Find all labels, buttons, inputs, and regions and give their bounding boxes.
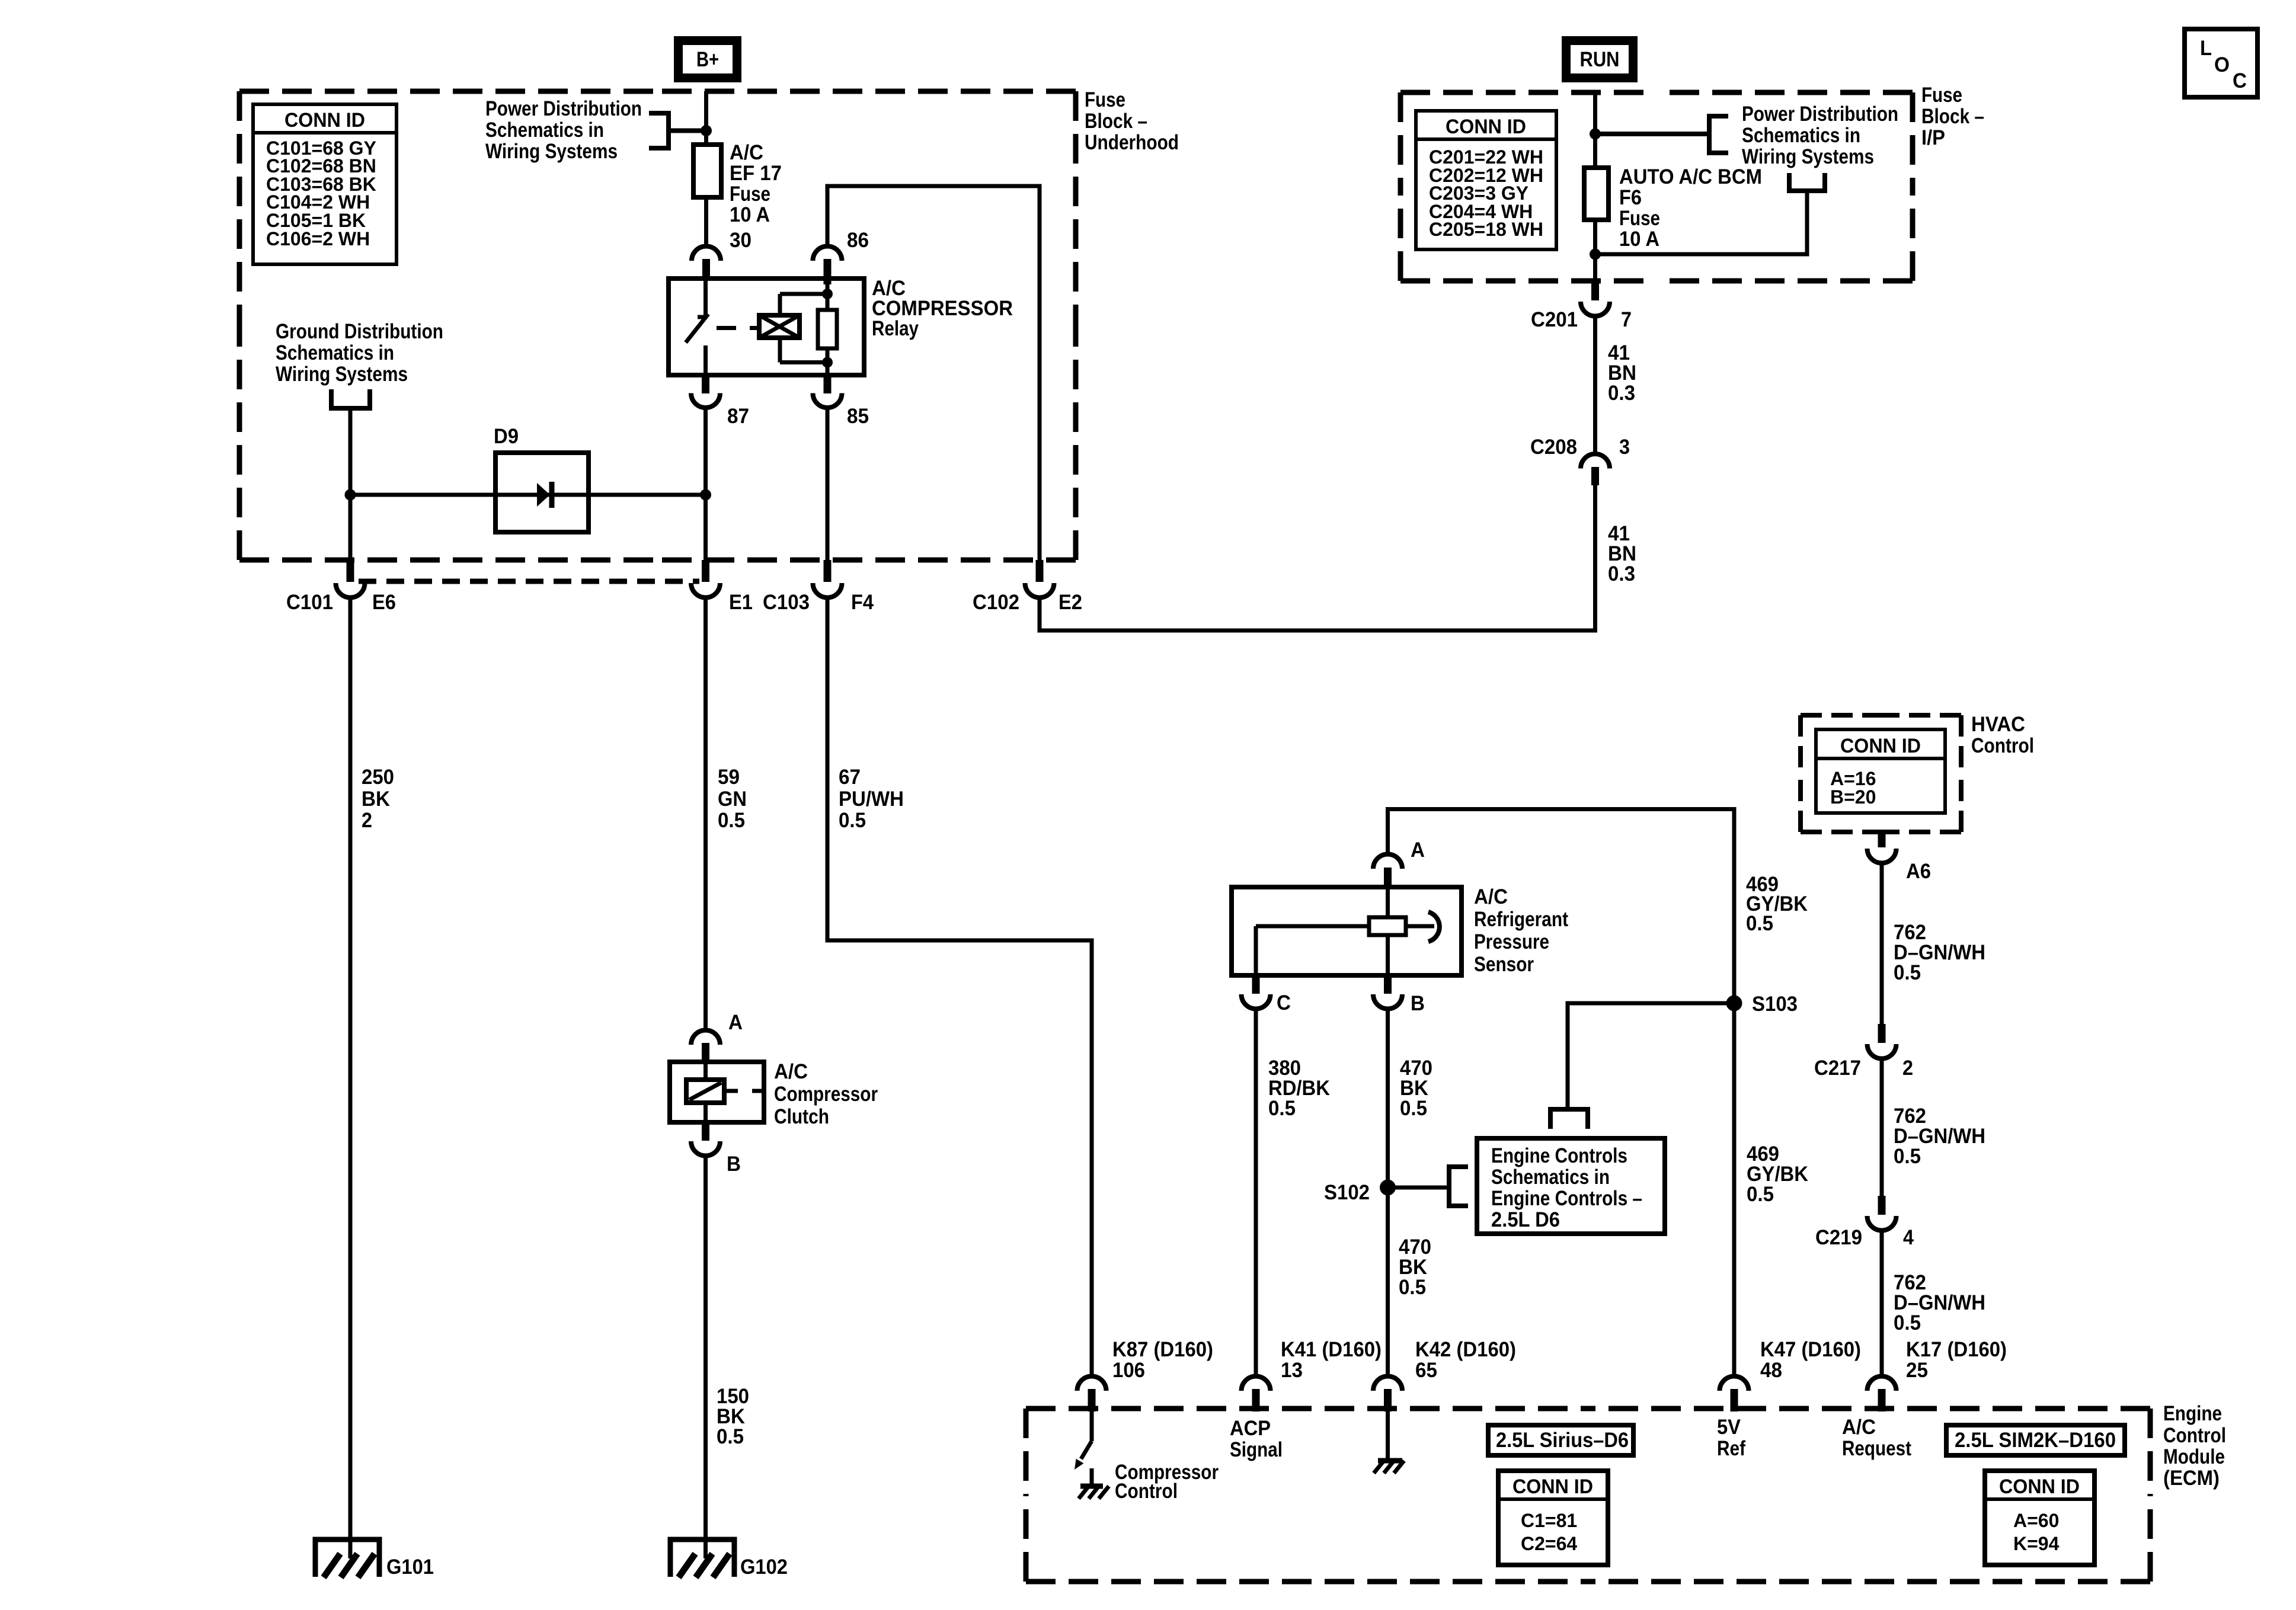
svg-text:Module: Module [2163, 1445, 2225, 1468]
sensor internal wires [1256, 887, 1434, 975]
svg-text:S102: S102 [1324, 1181, 1370, 1204]
wire C201 to C208 [1593, 316, 1597, 454]
label A/C EF 17 Fuse 10 A [730, 141, 782, 226]
svg-text:2.5L SIM2K–D160: 2.5L SIM2K–D160 [1955, 1429, 2116, 1452]
svg-text:Power Distribution: Power Distribution [1742, 103, 1898, 126]
node junction RUN feed upper [1590, 129, 1601, 140]
connector clutch A (dome + stub) [691, 1030, 720, 1045]
label 469 GY/BK 0.5 (lower) [1747, 1142, 1808, 1206]
connector E1 (stub + cup) [702, 560, 709, 582]
node coil bottom junction [822, 357, 833, 368]
connector K17 (dome + stub) [1868, 1377, 1897, 1391]
label 67 PU/WH 0.5 [839, 766, 904, 832]
label 762 D-GN/WH 0.5 (second) [1894, 1105, 1985, 1168]
svg-text:C208: C208 [1530, 436, 1577, 459]
svg-text:AUTO A/C BCM: AUTO A/C BCM [1619, 165, 1762, 188]
node diode right junction [700, 489, 711, 501]
svg-text:A6: A6 [1906, 860, 1931, 883]
connector sensor A (dome + stub) [1373, 854, 1402, 869]
svg-text:CONN ID: CONN ID [1840, 735, 1921, 757]
svg-text:HVAC: HVAC [1971, 713, 2025, 736]
off-page U symbol (I/P block) [1789, 173, 1825, 191]
svg-text:F4: F4 [851, 591, 874, 614]
svg-text:0.5: 0.5 [1399, 1276, 1426, 1299]
label 469 GY/BK 0.5 (upper) [1746, 873, 1808, 935]
svg-text:Fuse: Fuse [730, 183, 770, 206]
connector K87 (dome + stub) [1077, 1377, 1107, 1391]
svg-text:87: 87 [727, 405, 749, 428]
svg-text:RUN: RUN [1580, 48, 1620, 71]
svg-text:10 A: 10 A [730, 203, 770, 226]
svg-text:Engine: Engine [2163, 1402, 2222, 1425]
label Power Distribution Schematics in Wiring Systems (right) [1742, 103, 1898, 168]
svg-text:Pressure: Pressure [1474, 930, 1549, 953]
wire sensor B down to K42 [1386, 1009, 1390, 1377]
CONN ID table (HVAC) [1816, 729, 1945, 813]
clutch inner wire [703, 1062, 708, 1122]
2.5L SIM2K-D160 box [1946, 1425, 2125, 1455]
svg-text:L: L [2200, 37, 2212, 60]
svg-text:5V: 5V [1717, 1416, 1741, 1439]
svg-text:C106=2 WH: C106=2 WH [266, 228, 370, 249]
svg-text:0.5: 0.5 [1894, 1145, 1921, 1168]
svg-text:0.5: 0.5 [1894, 961, 1921, 984]
connector C217 (stub + cup) [1878, 1024, 1886, 1043]
svg-text:Schematics in: Schematics in [276, 341, 394, 364]
label 470 BK 0.5 (upper) [1400, 1057, 1432, 1120]
wire B+ feed down [704, 91, 708, 247]
connector F4 (stub + cup) [824, 560, 832, 582]
svg-text:Control: Control [2163, 1424, 2226, 1447]
node S103 junction [1726, 996, 1742, 1012]
connector K47 (dome + stub) [1720, 1377, 1749, 1391]
label 41 BN 0.3 (lower) [1608, 522, 1636, 585]
svg-text:Engine Controls: Engine Controls [1491, 1144, 1627, 1167]
wire clutch B to G102 [703, 1156, 708, 1540]
wire E1 down to clutch A [703, 598, 708, 1032]
svg-text:G101: G101 [386, 1555, 434, 1579]
svg-text:B=20: B=20 [1830, 786, 1876, 808]
svg-text:BK: BK [362, 788, 390, 811]
svg-text:Refrigerant: Refrigerant [1474, 908, 1568, 931]
fuse block I/P dashed border [1400, 92, 1913, 281]
wire RUN feed down [1593, 92, 1597, 281]
svg-text:K17 (D160): K17 (D160) [1906, 1338, 2007, 1361]
svg-text:13: 13 [1281, 1359, 1303, 1382]
label Compressor Control [1115, 1461, 1219, 1503]
node RUN (ignition feed box) [1562, 36, 1638, 82]
svg-text:C: C [2233, 69, 2247, 92]
svg-text:0.5: 0.5 [1746, 912, 1773, 935]
connector clutch B (stub + cup) [702, 1122, 709, 1141]
connector E6 (stub + cup) [347, 560, 354, 582]
label K47 (D160) 48 [1760, 1338, 1861, 1382]
ground distribution off-page U symbol [331, 389, 370, 408]
label HVAC Control [1971, 713, 2034, 757]
svg-text:A=60: A=60 [2013, 1510, 2059, 1531]
svg-text:10 A: 10 A [1619, 228, 1659, 251]
svg-text:Fuse: Fuse [1085, 88, 1125, 111]
wire relay 87 down to E1 [703, 408, 708, 560]
wire S102 branch to bracket [1388, 1186, 1450, 1190]
clutch dashed link [727, 1089, 762, 1093]
svg-text:E1: E1 [729, 591, 753, 614]
svg-text:CONN ID: CONN ID [284, 109, 365, 132]
svg-text:PU/WH: PU/WH [839, 788, 904, 811]
CONN ID table (SIM2K) [1985, 1471, 2094, 1565]
node S102 junction [1380, 1180, 1396, 1196]
diode D9 symbol [537, 482, 552, 508]
label A/C COMPRESSOR Relay [872, 277, 1013, 340]
svg-text:I/P: I/P [1921, 126, 1945, 149]
svg-text:3: 3 [1619, 436, 1630, 459]
label 41 BN 0.3 (upper) [1608, 341, 1636, 405]
svg-text:EF 17: EF 17 [730, 162, 782, 185]
svg-text:C102: C102 [973, 591, 1019, 614]
connector C201 (stub + cup) [1591, 281, 1599, 300]
fuse A/C EF 17 10 A [693, 145, 721, 197]
svg-text:25: 25 [1906, 1359, 1928, 1382]
svg-text:Compressor: Compressor [774, 1083, 878, 1106]
svg-text:F6: F6 [1619, 186, 1642, 209]
K42 internal ground wire [1386, 1411, 1390, 1459]
connector K42 (dome + stub) [1373, 1377, 1402, 1391]
A/C refrigerant pressure sensor box [1232, 887, 1462, 975]
svg-text:Fuse: Fuse [1921, 84, 1962, 107]
label 380 RD/BK 0.5 [1268, 1057, 1330, 1120]
label A/C Refrigerant Pressure Sensor [1474, 885, 1568, 976]
node diode left junction [345, 489, 356, 501]
label Engine Controls Schematics in Engine Controls - 2.5L D6 [1491, 1144, 1642, 1231]
svg-text:2: 2 [362, 809, 372, 832]
svg-text:0.5: 0.5 [1894, 1311, 1921, 1334]
svg-text:O: O [2214, 53, 2230, 76]
wire C208 down and left to E2 riser [1040, 485, 1595, 630]
label K41 (D160) 13 [1281, 1338, 1382, 1382]
connector sensor C (stub + cup) [1252, 975, 1260, 994]
svg-text:C: C [1277, 991, 1291, 1014]
clutch coil symbol with slash [686, 1080, 724, 1103]
bracket engine controls reference [1449, 1167, 1468, 1206]
relay coil loop wires [780, 284, 827, 375]
relay A/C COMPRESSOR box [669, 279, 864, 375]
fuse F6 [1584, 168, 1609, 220]
wire diode horizontal [350, 493, 706, 497]
svg-text:(ECM): (ECM) [2163, 1467, 2220, 1490]
CONN ID table (I/P) [1416, 111, 1556, 249]
wire ground distribution to E6 [348, 408, 353, 560]
connector sensor B (stub + cup) [1384, 975, 1392, 994]
connector K41 (dome + stub) [1242, 1377, 1271, 1391]
connector pin 30 (dome + stub) [692, 247, 721, 261]
svg-text:Block –: Block – [1085, 110, 1147, 133]
svg-text:4: 4 [1903, 1226, 1914, 1249]
svg-text:Block –: Block – [1921, 105, 1984, 128]
svg-text:CONN ID: CONN ID [1512, 1475, 1593, 1498]
svg-text:Engine Controls –: Engine Controls – [1491, 1187, 1642, 1210]
relay switch contact [686, 281, 708, 375]
svg-text:E6: E6 [372, 591, 396, 614]
svg-text:K47 (D160): K47 (D160) [1760, 1338, 1861, 1361]
relay resistor [818, 310, 837, 348]
bracket for power distribution reference (left) [649, 113, 706, 148]
2.5L Sirius-D6 box [1488, 1425, 1633, 1455]
label 250 BK 2 [362, 766, 394, 832]
label A/C Compressor Clutch [774, 1060, 878, 1128]
svg-text:C205=18 WH: C205=18 WH [1429, 219, 1543, 240]
svg-text:C101: C101 [286, 591, 333, 614]
label ACP Signal [1230, 1417, 1283, 1461]
connector A6 (stub + cup) [1878, 832, 1886, 847]
label Engine Control Module (ECM) [2163, 1402, 2226, 1490]
svg-text:48: 48 [1760, 1359, 1782, 1382]
connector pin 86 (dome + stub) [813, 247, 842, 261]
connector pin 87 (stub + cup) [702, 375, 709, 393]
svg-text:67: 67 [839, 766, 861, 789]
relay dashed actuator link [717, 326, 759, 330]
svg-text:G102: G102 [740, 1555, 788, 1579]
label Fuse Block - I/P [1921, 84, 1984, 149]
svg-text:E2: E2 [1059, 591, 1082, 614]
svg-text:Control: Control [1115, 1480, 1178, 1503]
svg-text:2.5L Sirius–D6: 2.5L Sirius–D6 [1496, 1429, 1629, 1452]
compressor control switch [1075, 1411, 1092, 1470]
svg-text:A/C: A/C [1842, 1416, 1876, 1439]
svg-text:C1=81: C1=81 [1521, 1510, 1577, 1531]
label Power Distribution Schematics in Wiring Systems (left) [485, 97, 642, 163]
label Ground Distribution Schematics in Wiring Systems [276, 320, 443, 386]
label K17 (D160) 25 [1906, 1338, 2007, 1382]
svg-text:Sensor: Sensor [1474, 953, 1534, 976]
svg-text:D9: D9 [494, 425, 519, 448]
svg-text:Wiring Systems: Wiring Systems [276, 363, 408, 386]
svg-text:CONN ID: CONN ID [1999, 1475, 2080, 1498]
connector E2 (stub + cup) [1036, 560, 1044, 582]
svg-text:Ground Distribution: Ground Distribution [276, 320, 443, 343]
connector pin 85 (stub + cup) [824, 375, 832, 393]
wire junction to off-page U symbol [1595, 193, 1808, 254]
label A/C Request [1842, 1416, 1911, 1460]
svg-text:0.5: 0.5 [1747, 1183, 1774, 1206]
LOC reference box [2185, 29, 2257, 97]
svg-text:250: 250 [362, 766, 394, 789]
diode D9 box [495, 453, 589, 532]
svg-text:Schematics in: Schematics in [1742, 124, 1860, 147]
engine controls reference box [1477, 1138, 1665, 1234]
ECM dashed box [1026, 1409, 2150, 1582]
label 59 GN 0.5 [718, 766, 747, 832]
svg-text:0.5: 0.5 [839, 809, 866, 832]
svg-text:Underhood: Underhood [1085, 131, 1179, 154]
label 150 BK 0.5 [717, 1385, 749, 1448]
label AUTO A/C BCM F6 Fuse 10 A [1619, 165, 1762, 251]
wire relay 85 down to F4 [826, 408, 830, 560]
svg-text:Power Distribution: Power Distribution [485, 97, 642, 120]
svg-text:85: 85 [847, 405, 869, 428]
off-page n symbol (engine controls) [1550, 1109, 1588, 1129]
svg-text:A/C: A/C [774, 1060, 808, 1083]
svg-text:59: 59 [718, 766, 740, 789]
svg-text:K87 (D160): K87 (D160) [1112, 1338, 1213, 1361]
svg-text:0.3: 0.3 [1608, 382, 1635, 405]
svg-text:0.5: 0.5 [717, 1425, 744, 1448]
svg-text:Fuse: Fuse [1619, 207, 1660, 230]
CONN ID table (underhood) [253, 104, 396, 264]
wire 5V ref net: sensor A up, across, down to S103 and K47 [1388, 809, 1735, 1377]
ground G102 [670, 1539, 734, 1577]
compressor control ground [1079, 1468, 1109, 1499]
sensor transducer rect [1369, 917, 1406, 935]
wire 86 up and over to E2 [827, 186, 1040, 560]
svg-text:K42 (D160): K42 (D160) [1415, 1338, 1516, 1361]
svg-text:Wiring Systems: Wiring Systems [485, 140, 618, 163]
svg-text:0.5: 0.5 [1400, 1097, 1427, 1120]
K42 ground symbol [1374, 1461, 1404, 1473]
wire C217 to C219 [1880, 1059, 1884, 1196]
svg-text:C219: C219 [1815, 1226, 1862, 1249]
node coil top junction [822, 289, 833, 299]
svg-text:2: 2 [1902, 1057, 1913, 1080]
svg-text:B: B [727, 1153, 741, 1176]
label K87 (D160) 106 [1112, 1338, 1213, 1382]
label K42 (D160) 65 [1415, 1338, 1516, 1382]
svg-text:Schematics in: Schematics in [1491, 1166, 1610, 1189]
label 762 D-GN/WH 0.5 (third) [1894, 1271, 1985, 1334]
wire C219 down to K17 [1880, 1231, 1884, 1377]
node junction RUN feed lower [1590, 249, 1601, 260]
bracket for power distribution reference (right) [1595, 116, 1729, 153]
svg-text:C201: C201 [1531, 308, 1578, 331]
ground G101 [315, 1539, 379, 1577]
svg-text:C103: C103 [763, 591, 810, 614]
svg-text:65: 65 [1415, 1359, 1437, 1382]
svg-text:GN: GN [718, 788, 747, 811]
A/C compressor clutch box [670, 1062, 764, 1122]
CONN ID table (Sirius) [1498, 1471, 1608, 1565]
connector C219 (stub + cup) [1878, 1196, 1886, 1215]
svg-text:2.5L D6: 2.5L D6 [1491, 1208, 1560, 1231]
wire S103 branch to engine controls reference [1568, 1003, 1734, 1109]
svg-text:B+: B+ [696, 48, 719, 71]
svg-text:A: A [728, 1011, 743, 1034]
sensor diaphragm arc [1428, 912, 1440, 942]
node B+ (battery feed box) [674, 36, 741, 82]
wire E6 ground run to G101 [348, 598, 353, 1540]
svg-text:A/C: A/C [1474, 885, 1508, 908]
svg-text:0.3: 0.3 [1608, 562, 1635, 585]
HVAC control dashed box [1801, 715, 1961, 832]
svg-text:ACP: ACP [1230, 1417, 1271, 1440]
svg-text:C2=64: C2=64 [1521, 1533, 1577, 1554]
wire sensor C down to K41 [1254, 1009, 1258, 1377]
wire A6 down to C217 [1880, 863, 1884, 1025]
relay coil box with X [759, 315, 800, 338]
svg-text:Signal: Signal [1230, 1438, 1283, 1461]
svg-text:Relay: Relay [872, 317, 919, 340]
svg-text:C217: C217 [1814, 1057, 1861, 1080]
label 470 BK 0.5 (lower) [1399, 1235, 1431, 1299]
svg-text:Request: Request [1842, 1437, 1911, 1460]
svg-text:A/C: A/C [730, 141, 763, 164]
svg-text:Ref: Ref [1717, 1437, 1745, 1460]
label 5V Ref [1717, 1416, 1745, 1460]
svg-text:Schematics in: Schematics in [485, 119, 604, 142]
dotted connector row line C101-C103 [359, 579, 699, 584]
label Fuse Block - Underhood [1085, 88, 1179, 154]
svg-text:K=94: K=94 [2013, 1533, 2060, 1554]
svg-text:CONN ID: CONN ID [1446, 116, 1526, 138]
node junction on B+ feed [701, 125, 712, 136]
wire F4 down then over then down to K87 [827, 598, 1092, 1377]
svg-text:86: 86 [847, 229, 869, 252]
svg-text:0.5: 0.5 [1268, 1097, 1296, 1120]
svg-text:0.5: 0.5 [718, 809, 745, 832]
svg-text:106: 106 [1112, 1359, 1145, 1382]
svg-text:Control: Control [1971, 734, 2034, 757]
label 762 D-GN/WH 0.5 (first) [1894, 921, 1985, 984]
svg-text:S103: S103 [1752, 993, 1798, 1016]
fuse block underhood dashed border [239, 91, 1076, 560]
svg-text:B: B [1411, 992, 1425, 1015]
connector C208 (dome + stub) [1581, 454, 1610, 469]
svg-text:7: 7 [1621, 308, 1632, 331]
svg-text:Clutch: Clutch [774, 1105, 829, 1128]
svg-text:K41 (D160): K41 (D160) [1281, 1338, 1382, 1361]
svg-text:30: 30 [730, 229, 752, 252]
svg-text:A: A [1411, 838, 1425, 862]
